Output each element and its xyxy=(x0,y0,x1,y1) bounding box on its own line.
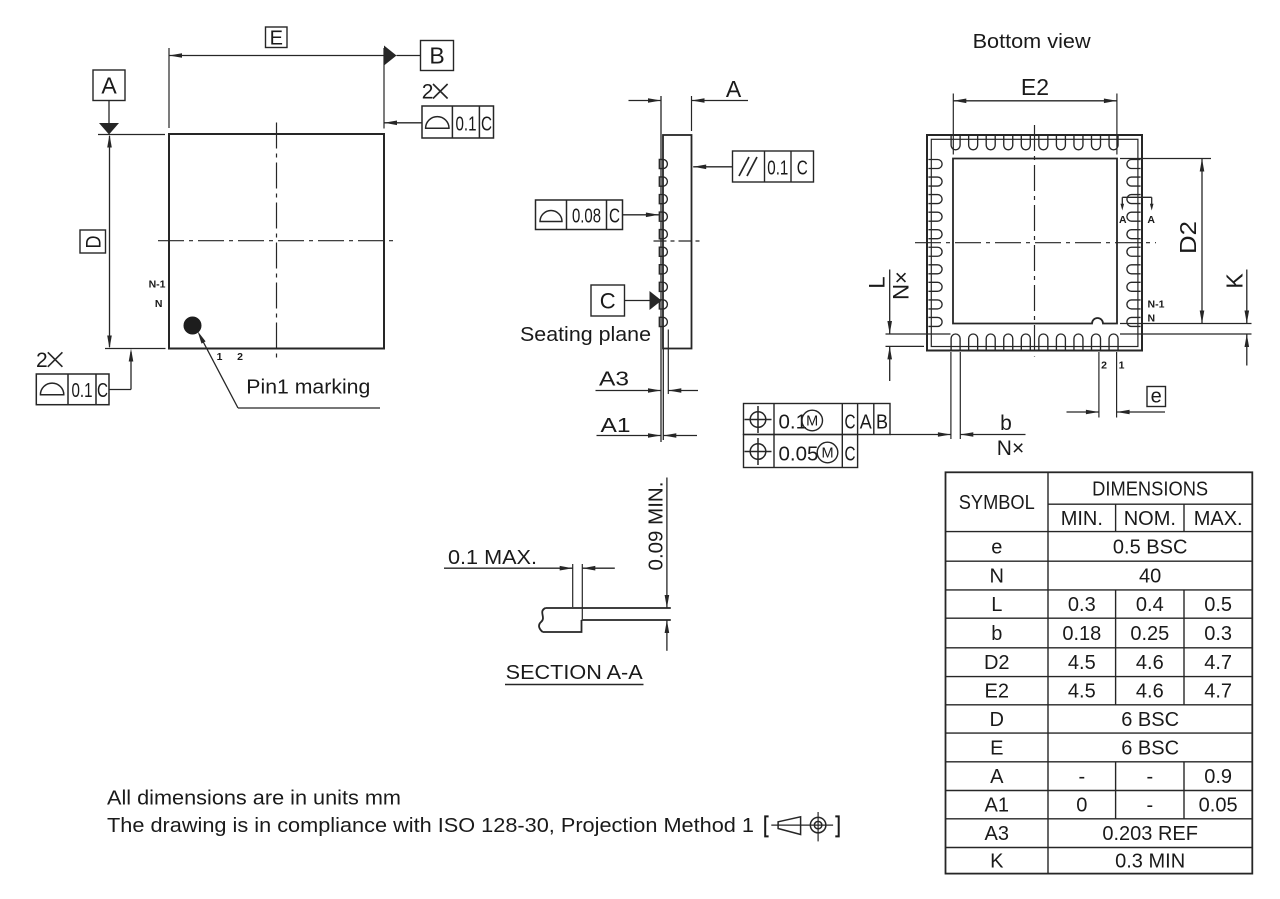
svg-text:L: L xyxy=(865,276,890,288)
projection symbol circles xyxy=(810,817,826,833)
svg-text:A: A xyxy=(990,766,1004,788)
dimension e label box xyxy=(1147,387,1166,407)
projection symbol left bracket xyxy=(765,816,768,836)
top view vertical centerline xyxy=(276,123,278,358)
svg-text:6 BSC: 6 BSC xyxy=(1121,709,1179,731)
bottom view bottom lead row xyxy=(951,334,960,350)
feature control frame: profile 0.1 C (bottom left) xyxy=(36,374,109,405)
dimension E label box xyxy=(266,27,288,48)
svg-text:0.4: 0.4 xyxy=(1136,594,1164,616)
svg-text:B: B xyxy=(429,43,444,69)
svg-text:K: K xyxy=(1222,273,1248,289)
svg-text:C: C xyxy=(600,289,616,314)
dimension L: reference lines xyxy=(886,333,951,335)
svg-text:40: 40 xyxy=(1139,566,1161,588)
bottom view horizontal centerline xyxy=(915,242,1156,244)
svg-text:The drawing is in compliance w: The drawing is in compliance with ISO 12… xyxy=(107,814,754,837)
position tolerance frame row 2: 0.05 M | C xyxy=(744,435,858,468)
seating plane line xyxy=(660,96,662,442)
svg-text:0.3 MIN: 0.3 MIN xyxy=(1115,851,1185,873)
svg-text:N-1: N-1 xyxy=(1148,299,1165,311)
profile frame leader xyxy=(623,214,659,216)
dimension A: dimension line and arrows xyxy=(629,100,662,102)
svg-text:A1: A1 xyxy=(601,414,631,437)
dimension E2: extension lines xyxy=(952,94,954,155)
svg-text:0.09 MIN.: 0.09 MIN. xyxy=(645,482,668,571)
exposed pad with pin1 notch xyxy=(953,159,1117,324)
feature control frame: profile 0.1 C (top right) xyxy=(422,106,494,138)
svg-text:-: - xyxy=(1146,795,1153,817)
svg-text:0.3: 0.3 xyxy=(1204,623,1232,645)
dimensions table grid xyxy=(946,472,1253,873)
svg-text:-: - xyxy=(1078,766,1085,788)
svg-text:NOM.: NOM. xyxy=(1124,508,1176,530)
side view lead bumps xyxy=(659,159,667,168)
datum B symbol triangle xyxy=(384,46,397,66)
svg-text:Bottom view: Bottom view xyxy=(973,30,1091,53)
dimension A1: dimension line and arrows xyxy=(597,435,662,437)
svg-text:N: N xyxy=(1148,313,1156,325)
svg-text:D2: D2 xyxy=(984,652,1010,674)
section A-A title underline xyxy=(505,684,644,686)
svg-text:D2: D2 xyxy=(1175,221,1201,254)
svg-text:N: N xyxy=(155,298,163,310)
dimension 0.09 MIN: dimension lines and arrows xyxy=(666,478,668,609)
svg-text:SYMBOL: SYMBOL xyxy=(959,492,1035,514)
datum C label box xyxy=(591,285,625,316)
svg-text:4.5: 4.5 xyxy=(1068,652,1096,674)
svg-text:N×: N× xyxy=(889,271,914,300)
svg-text:C: C xyxy=(797,156,808,179)
dimension e: extension lines xyxy=(1098,352,1100,418)
svg-text:M: M xyxy=(806,414,818,430)
dimension 0.1 MAX: extension lines xyxy=(572,564,574,607)
svg-text:0.5: 0.5 xyxy=(1204,594,1232,616)
svg-text:E2: E2 xyxy=(1021,74,1049,100)
svg-text:0.9: 0.9 xyxy=(1204,766,1232,788)
svg-text:6 BSC: 6 BSC xyxy=(1121,737,1179,759)
dimension E: extension lines xyxy=(168,48,170,128)
svg-text:A3: A3 xyxy=(599,368,629,391)
leader from frame to E extension line xyxy=(384,122,422,124)
svg-text:D: D xyxy=(81,236,105,249)
dimension E2: dimension line and arrows xyxy=(953,100,1117,102)
pin1 marking dot xyxy=(184,317,202,335)
svg-text:-: - xyxy=(1146,766,1153,788)
svg-text:e: e xyxy=(1151,386,1162,408)
svg-text:SECTION A-A: SECTION A-A xyxy=(506,661,643,684)
dimension D label box xyxy=(80,230,106,253)
dimension D2: extension lines xyxy=(1120,158,1211,160)
datum B label box xyxy=(421,41,454,71)
section A-A lead profile xyxy=(539,608,671,632)
svg-text:MIN.: MIN. xyxy=(1061,508,1103,530)
dimension e: dimension line and arrows xyxy=(1067,411,1099,413)
svg-text:2: 2 xyxy=(422,81,434,104)
dimension D: extension lines xyxy=(98,134,165,136)
datum A label box xyxy=(93,70,125,101)
svg-text:C: C xyxy=(845,412,856,434)
side view body outline xyxy=(663,135,692,349)
svg-text:4.7: 4.7 xyxy=(1204,681,1232,703)
svg-text:0.203 REF: 0.203 REF xyxy=(1102,823,1198,845)
projection symbol right bracket xyxy=(835,816,838,836)
svg-text:0.1: 0.1 xyxy=(72,379,93,402)
svg-text:N: N xyxy=(990,566,1004,588)
svg-text:0.1: 0.1 xyxy=(779,411,808,434)
svg-text:0.25: 0.25 xyxy=(1130,623,1169,645)
dimension A3: dimension line and arrows xyxy=(596,390,662,392)
dimension K: dimension lines and arrows xyxy=(1246,270,1248,324)
svg-text:C: C xyxy=(481,113,492,136)
svg-text:e: e xyxy=(991,536,1002,558)
svg-text:2: 2 xyxy=(237,351,243,363)
bottom view outer outline xyxy=(927,135,1142,351)
svg-text:B: B xyxy=(876,412,888,434)
position tolerance frame row 1: 0.1 M | C A B xyxy=(744,404,891,435)
svg-text:4.5: 4.5 xyxy=(1068,681,1096,703)
feature control frame: parallelism 0.1 C xyxy=(733,151,814,182)
dimension b: dimension line and arrows xyxy=(890,434,951,436)
dimension b: extension lines xyxy=(950,352,952,439)
datum C symbol triangle xyxy=(650,291,662,310)
svg-text:4.7: 4.7 xyxy=(1204,652,1232,674)
top view: package body outline xyxy=(169,134,384,349)
svg-text:0.1: 0.1 xyxy=(767,156,788,179)
section A-A cut marker xyxy=(1122,196,1151,198)
svg-text:1: 1 xyxy=(1119,360,1125,372)
svg-text:N×: N× xyxy=(997,437,1024,460)
datum B leader xyxy=(397,55,421,57)
pin1 leader with arrow xyxy=(203,341,239,409)
svg-text:1: 1 xyxy=(217,351,223,363)
svg-text:MAX.: MAX. xyxy=(1194,508,1243,530)
dimension E: dimension line and arrow xyxy=(169,55,384,57)
svg-text:Pin1 marking: Pin1 marking xyxy=(246,375,370,398)
top view horizontal centerline xyxy=(158,240,395,242)
svg-text:A: A xyxy=(726,76,742,102)
svg-text:A: A xyxy=(101,72,117,98)
datum A symbol triangle xyxy=(99,123,119,135)
dimension L: dimension lines and arrows xyxy=(889,270,891,335)
svg-text:A: A xyxy=(1119,214,1127,226)
svg-text:M: M xyxy=(821,446,833,462)
svg-text:0.1 MAX.: 0.1 MAX. xyxy=(448,546,537,569)
svg-text:b: b xyxy=(991,623,1002,645)
svg-text:2: 2 xyxy=(36,349,48,372)
bottom view left lead column xyxy=(928,160,942,169)
svg-text:0.1: 0.1 xyxy=(456,113,477,136)
body edge extension below xyxy=(662,349,664,441)
svg-text:A3: A3 xyxy=(985,823,1009,845)
svg-text:E: E xyxy=(990,737,1003,759)
svg-text:0.18: 0.18 xyxy=(1062,623,1101,645)
svg-text:0.05: 0.05 xyxy=(779,443,819,466)
svg-text:Seating plane: Seating plane xyxy=(520,323,651,346)
svg-text:A1: A1 xyxy=(985,795,1009,817)
svg-text:E: E xyxy=(270,28,283,50)
datum C leader xyxy=(625,300,651,302)
bottom view inner outline xyxy=(931,139,1138,346)
svg-text:DIMENSIONS: DIMENSIONS xyxy=(1092,479,1208,501)
svg-text:A: A xyxy=(1147,214,1155,226)
svg-text:D: D xyxy=(990,709,1004,731)
svg-text:0: 0 xyxy=(1076,795,1087,817)
side view centerline xyxy=(654,240,702,242)
bottom view right lead column xyxy=(1127,160,1141,169)
bottom view vertical centerline xyxy=(1034,125,1036,357)
svg-text:All dimensions are in units mm: All dimensions are in units mm xyxy=(107,787,401,810)
parallelism frame leader xyxy=(693,166,732,168)
svg-text:0.3: 0.3 xyxy=(1068,594,1096,616)
datum A leader xyxy=(108,101,110,125)
dimension D: dimension line and arrows xyxy=(109,136,111,347)
svg-text:C: C xyxy=(609,204,620,227)
svg-text:N-1: N-1 xyxy=(149,279,166,291)
svg-text:C: C xyxy=(97,379,108,402)
svg-text:0.05: 0.05 xyxy=(1199,795,1238,817)
svg-text:C: C xyxy=(845,444,856,466)
svg-text:K: K xyxy=(990,851,1004,873)
feature control frame: profile 0.08 C xyxy=(536,200,623,230)
dimension D2: dimension line and arrows xyxy=(1201,159,1203,324)
projection symbol cone xyxy=(771,824,833,826)
svg-text:0.5 BSC: 0.5 BSC xyxy=(1113,536,1187,558)
svg-text:2: 2 xyxy=(1101,360,1107,372)
bottom view top lead row xyxy=(951,136,960,150)
dimension A3: extension line xyxy=(667,330,669,395)
dimension A: right extension line xyxy=(691,96,693,131)
svg-text:L: L xyxy=(991,594,1002,616)
svg-text:b: b xyxy=(1000,412,1012,435)
svg-text:0.08: 0.08 xyxy=(572,204,601,227)
svg-text:4.6: 4.6 xyxy=(1136,652,1164,674)
dimension 0.1 MAX: dimension line and arrows xyxy=(444,567,573,569)
dimension K: lead-edge reference line xyxy=(1120,333,1252,335)
svg-text:4.6: 4.6 xyxy=(1136,681,1164,703)
leader from frame to D extension line xyxy=(109,389,131,391)
svg-text:E2: E2 xyxy=(985,681,1009,703)
svg-text:A: A xyxy=(860,412,873,434)
